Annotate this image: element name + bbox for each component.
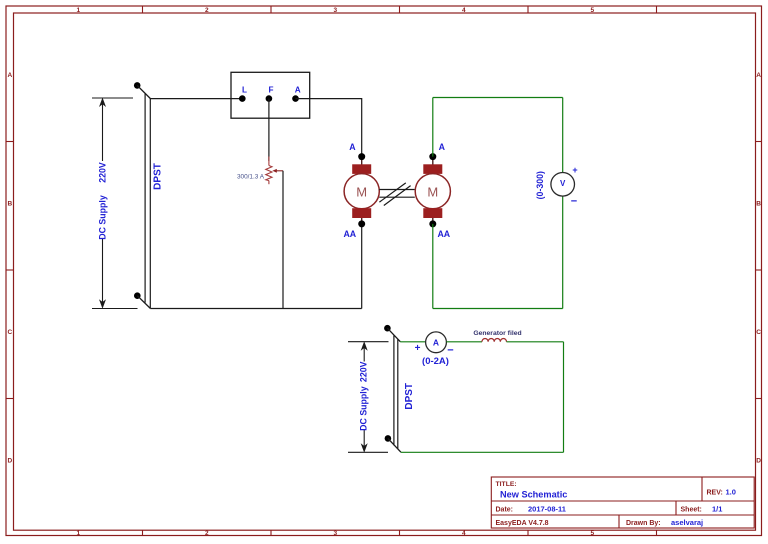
label 300/1.3 A: [237, 173, 265, 180]
label DPST (S1): [153, 163, 164, 190]
green wire M2 AA down: [432, 224, 434, 309]
svg-text:2017-08-11: 2017-08-11: [528, 505, 566, 514]
zone ticks top: [143, 6, 657, 13]
svg-text:DC Supply: DC Supply: [98, 195, 108, 240]
label DC Supply (top supply): [98, 195, 108, 240]
svg-text:5: 5: [590, 7, 594, 14]
svg-text:A: A: [756, 72, 761, 79]
green wire inductor to right: [507, 341, 564, 343]
svg-text:V: V: [560, 179, 566, 188]
svg-text:B: B: [756, 201, 761, 208]
svg-text:1.0: 1.0: [726, 488, 736, 497]
label DC Supply (bottom supply): [359, 386, 369, 431]
svg-text:5: 5: [590, 530, 594, 537]
svg-text:(0-300): (0-300): [535, 171, 545, 199]
svg-text:(0-2A): (0-2A): [422, 356, 449, 367]
green wire top: [433, 97, 563, 99]
starter box U1: [231, 72, 310, 118]
DPST switch S1: [134, 82, 150, 308]
inductor generator field: [482, 339, 506, 342]
svg-text:3: 3: [333, 7, 337, 14]
svg-text:REV:: REV:: [707, 490, 723, 497]
svg-text:aselvaraj: aselvaraj: [671, 518, 703, 527]
voltmeter V1: [551, 165, 578, 208]
wire M1 AA to bottom rail: [361, 224, 363, 309]
label Generator filed: [473, 330, 521, 337]
label DPST (S2): [404, 383, 415, 410]
svg-text:2: 2: [205, 530, 209, 537]
svg-text:New Schematic: New Schematic: [500, 489, 567, 499]
green wire bottom rail: [401, 451, 564, 453]
svg-text:A: A: [7, 72, 12, 79]
node F: [266, 86, 274, 102]
dimension arrow DC supply top: [92, 98, 138, 309]
dimension arrow DC supply bottom: [348, 342, 389, 453]
svg-text:B: B: [7, 201, 12, 208]
svg-text:C: C: [756, 329, 761, 336]
svg-text:M: M: [427, 185, 438, 200]
svg-text:Generator filed: Generator filed: [473, 330, 521, 337]
node L: [239, 86, 247, 102]
svg-text:2: 2: [205, 7, 209, 14]
svg-text:D: D: [756, 458, 761, 465]
svg-text:Sheet:: Sheet:: [681, 507, 702, 514]
svg-text:A: A: [295, 86, 301, 95]
zone letters left: [7, 72, 12, 465]
zone numbers bottom: [76, 530, 594, 537]
title block frame: [491, 477, 754, 528]
svg-text:Drawn By:: Drawn By:: [626, 520, 661, 527]
shaft coupling: [379, 183, 415, 206]
svg-text:3: 3: [333, 530, 337, 537]
node A: [292, 86, 301, 102]
wire A to motor M1: [296, 99, 362, 157]
svg-text:DC Supply: DC Supply: [359, 386, 369, 431]
svg-text:300/1.3 A: 300/1.3 A: [237, 173, 265, 180]
svg-text:A: A: [433, 338, 439, 348]
svg-text:1: 1: [76, 7, 80, 14]
label AA (M1): [343, 229, 356, 239]
green wire right side down: [563, 342, 565, 453]
DPST switch S2: [384, 325, 401, 452]
zone ticks bottom: [143, 530, 657, 535]
label (0-2A): [422, 356, 449, 367]
wire F to rheostat: [268, 99, 270, 161]
svg-text:TITLE:: TITLE:: [496, 481, 517, 488]
motor M2: [415, 153, 450, 227]
rheostat wiper arrow: [272, 169, 283, 173]
wire DPST to L: [150, 98, 242, 100]
svg-text:−: −: [447, 344, 453, 356]
green wire M2 A up: [432, 98, 434, 157]
svg-text:D: D: [7, 458, 12, 465]
svg-text:−: −: [571, 196, 577, 208]
label A (M2): [439, 142, 446, 152]
svg-text:1/1: 1/1: [712, 505, 722, 514]
zone letters right: [756, 72, 761, 465]
bottom rail wire (top circuit): [150, 308, 361, 310]
svg-text:1: 1: [76, 530, 80, 537]
svg-text:DPST: DPST: [153, 163, 164, 190]
svg-text:A: A: [439, 142, 446, 152]
svg-text:F: F: [268, 86, 273, 95]
rheostat 300/1.3A: [266, 157, 272, 185]
svg-text:C: C: [7, 329, 12, 336]
svg-text:Date:: Date:: [496, 507, 514, 514]
green wire ammeter to inductor: [446, 341, 482, 343]
label A (M1): [349, 142, 356, 152]
svg-text:AA: AA: [343, 229, 356, 239]
label AA (M2): [437, 229, 450, 239]
svg-text:220V: 220V: [98, 162, 108, 183]
green wire bottom: [433, 308, 563, 310]
zone ticks right: [756, 142, 762, 399]
svg-text:4: 4: [462, 7, 466, 14]
svg-text:DPST: DPST: [404, 383, 415, 410]
zone numbers top: [76, 7, 594, 14]
svg-text:+: +: [572, 165, 577, 175]
svg-text:L: L: [242, 86, 247, 95]
motor M1: [344, 153, 379, 227]
label 220V (top supply): [98, 162, 108, 183]
wire wiper down to bottom rail: [282, 171, 284, 309]
svg-text:EasyEDA V4.7.8: EasyEDA V4.7.8: [496, 520, 549, 527]
svg-text:220V: 220V: [359, 361, 369, 382]
green wire S2 to ammeter: [400, 341, 425, 343]
svg-text:M: M: [356, 185, 367, 200]
green wire right down through voltmeter: [562, 98, 564, 309]
svg-text:4: 4: [462, 530, 466, 537]
svg-text:+: +: [415, 343, 421, 354]
svg-text:A: A: [349, 142, 356, 152]
svg-text:AA: AA: [437, 229, 450, 239]
label (0-300): [535, 171, 545, 199]
title block texts: [496, 481, 736, 527]
label 220V (bottom supply): [359, 361, 369, 382]
zone ticks left: [6, 142, 14, 399]
ammeter A1: [415, 332, 454, 356]
